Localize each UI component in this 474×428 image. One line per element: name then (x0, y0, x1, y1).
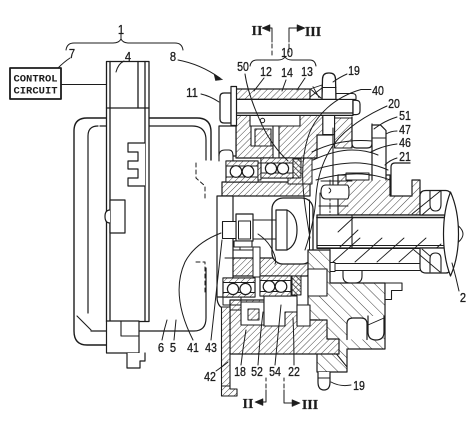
pulley tab column 47 (372, 125, 386, 180)
svg-text:CONTROL: CONTROL (13, 74, 57, 86)
svg-text:6: 6 (158, 340, 164, 355)
control box leader wire (61, 84, 107, 86)
bracket foot 19 (318, 372, 330, 390)
rotor shaft bolt head (276, 210, 297, 250)
leader 12 (254, 78, 264, 91)
upper left bearing outer (226, 161, 258, 182)
bracket right cutout (385, 283, 402, 300)
plate tabs (128, 143, 145, 186)
svg-text:40: 40 (372, 83, 384, 98)
upper left bearing ball 1 (230, 166, 242, 178)
svg-text:46: 46 (399, 135, 411, 150)
lower right bearing ball 2 (275, 281, 287, 293)
arrowhead III bottom (292, 400, 300, 407)
lower flange hatched (230, 300, 339, 354)
encoder block (223, 222, 237, 239)
svg-text:21: 21 (399, 149, 411, 164)
bolt washer (231, 87, 237, 126)
bracket upper cutout (308, 269, 327, 296)
leader 52 (258, 312, 263, 365)
rotor hub hatched band upper (222, 182, 310, 196)
curve zone sweep a (313, 150, 378, 160)
inner hatched key (255, 129, 271, 146)
rotor shaft lines (253, 220, 276, 239)
svg-text:III: III (302, 398, 318, 413)
lug diagonal (368, 318, 384, 325)
leader 7 (58, 58, 70, 68)
sensor strip 42 (222, 307, 231, 386)
plate step bar (336, 94, 356, 100)
clutch pin (321, 185, 349, 199)
svg-text:52: 52 (251, 364, 263, 379)
upper right bearing race bottom (261, 173, 293, 178)
detent ball (260, 118, 264, 122)
bolt shaft inner line (236, 112, 353, 114)
leader 19 bottom (331, 382, 351, 386)
collar diagonals (412, 191, 441, 216)
lower right bearing race bottom (260, 292, 291, 297)
svg-text:42: 42 (204, 369, 216, 384)
svg-text:2: 2 (460, 290, 466, 305)
pin notch (329, 188, 331, 193)
rotor web edge (332, 128, 334, 185)
flange slot right (273, 126, 279, 158)
upper right bearing race top (261, 158, 293, 163)
leader 5 (174, 320, 176, 340)
tick 1 (120, 34, 122, 39)
hub block inner edge (309, 200, 311, 262)
rotor rim hatch (335, 118, 352, 148)
output shaft 2 (317, 215, 451, 248)
center nut block 43 (236, 214, 253, 241)
bracket lug (368, 316, 384, 340)
leader 21 (385, 158, 397, 165)
lower left bearing outer (223, 278, 255, 297)
flange white cutout 54 (264, 296, 297, 326)
plate divider (107, 107, 150, 109)
bracket chamfer (330, 346, 347, 367)
shaft spline diagonals (333, 218, 441, 262)
flange white cutout 52 (241, 302, 264, 325)
svg-text:18: 18 (234, 364, 246, 379)
leader 46 (371, 144, 397, 152)
svg-text:41: 41 (187, 340, 199, 355)
step block below shaft (327, 263, 335, 272)
svg-text:22: 22 (288, 364, 300, 379)
leader 20 (305, 106, 387, 250)
plate right inner line (144, 62, 146, 322)
svg-text:19: 19 (353, 378, 365, 393)
housing inner shell 6 (88, 126, 206, 331)
upper flange white cutout (251, 126, 273, 146)
housing chamfer line (77, 316, 91, 330)
upper left wall (219, 126, 236, 156)
leader 43 (211, 240, 222, 340)
connector bump (105, 210, 110, 223)
leader 18 (241, 330, 246, 365)
arrowhead 8 (214, 74, 223, 80)
leader 42 (216, 362, 228, 371)
brace 1 (66, 39, 183, 50)
lower bearing right block (292, 276, 301, 295)
top plate hatched 12 14 13 (236, 89, 310, 99)
mid left wall (217, 196, 233, 297)
rotor hub hatched band lower (225, 258, 310, 276)
shaft end lens 2 (444, 192, 459, 276)
upper collar (420, 191, 455, 216)
lens tip (459, 226, 464, 242)
lower right bearing outer (260, 276, 291, 296)
leader 47 (386, 131, 397, 134)
section line II bottom (256, 390, 266, 402)
leader 51 (374, 117, 397, 129)
leader 50 (245, 74, 288, 161)
leader 6 (162, 320, 167, 340)
upper left bearing ball 2 (242, 166, 254, 178)
lower collar diagonals (414, 249, 440, 272)
foot inner line (322, 87, 336, 89)
nut inner (239, 221, 251, 239)
svg-text:19: 19 (348, 63, 360, 78)
lower left bearing ball 1 (227, 283, 238, 294)
collar notch (430, 191, 441, 211)
shaft inner top line (317, 217, 451, 219)
upper left bearing race top (226, 161, 258, 166)
upper flange hatched block (236, 115, 332, 159)
upper right bearing ball 2 (277, 163, 288, 174)
rotor hub mid hatch (288, 158, 312, 184)
curve zone sweep b (313, 163, 388, 170)
svg-text:8: 8 (170, 49, 176, 64)
upper flange white slot (250, 115, 300, 126)
arrowhead II top (262, 25, 270, 32)
pulley U channel 51 (352, 117, 372, 148)
spring wire curve (258, 234, 276, 264)
housing hidden edge dashes lower (196, 262, 205, 292)
flat bar above pin zone (346, 173, 369, 180)
stator plate 4 (107, 62, 150, 322)
shaft step line (351, 215, 353, 248)
svg-text:51: 51 (399, 108, 411, 123)
mount foot top 19 (322, 73, 336, 99)
pin base lines (319, 181, 352, 215)
plate bottom block (107, 321, 140, 353)
svg-text:4: 4 (125, 49, 131, 64)
nut step lines (225, 247, 253, 258)
lower right bearing ball 1 (263, 281, 275, 293)
svg-text:13: 13 (301, 64, 313, 79)
plate connector box (110, 200, 125, 233)
curve zone sweep a0 (312, 140, 372, 152)
right end plate white (323, 107, 335, 135)
center axis dash (329, 180, 331, 263)
tab base line (372, 137, 386, 139)
svg-text:10: 10 (281, 45, 293, 60)
strip foot (222, 386, 238, 396)
svg-text:III: III (305, 25, 321, 40)
upper right bearing outer (261, 158, 293, 178)
leader 54 (275, 305, 281, 365)
section line III bottom (284, 390, 299, 403)
retainer bump (343, 271, 362, 284)
bolt face line (286, 210, 288, 250)
svg-text:5: 5 (170, 340, 176, 355)
leader 22 (293, 318, 294, 365)
lower left steps under bearing (223, 297, 241, 310)
housing hidden edge dashes upper (196, 163, 205, 200)
svg-text:1: 1 (118, 22, 124, 37)
washer band (317, 249, 440, 263)
bottom bracket 19 hatched (308, 250, 385, 372)
svg-text:12: 12 (260, 64, 272, 79)
housing outer shell 5 (74, 118, 211, 345)
flange key hatch (248, 309, 259, 320)
flange white cutout 22 (297, 305, 310, 326)
leader 2 (452, 263, 459, 291)
foot line (318, 377, 330, 379)
lower collar notch (430, 253, 441, 272)
lower left bearing race bottom (223, 293, 255, 298)
plate bottom notch (121, 321, 139, 336)
upper left bearing race bottom (226, 177, 258, 182)
lower left bearing ball 2 (240, 283, 251, 294)
leader 14 (282, 80, 286, 91)
plate foot (127, 353, 145, 368)
brace 10 (250, 57, 316, 66)
upper bearing spacer (258, 163, 261, 180)
lower right bearing race top (260, 276, 291, 281)
through bolt shaft 50 (236, 99, 353, 115)
arrowhead II bottom (255, 399, 263, 406)
wall top step (219, 150, 233, 161)
nut flange (234, 241, 252, 247)
upper right bearing ball 1 (265, 163, 276, 174)
section line II top (263, 28, 272, 42)
leader 41 (179, 233, 221, 340)
shaft inner bottom line (317, 245, 451, 247)
svg-text:50: 50 (237, 59, 249, 74)
leader 4 (116, 61, 124, 72)
bolt head 11 (220, 93, 231, 123)
svg-text:II: II (252, 24, 263, 39)
retainer bar (335, 264, 428, 271)
center hub rounded block 40 (272, 198, 313, 264)
leader 11 (201, 94, 219, 102)
hub lower hatch right (338, 175, 420, 215)
retainer end tab (428, 258, 435, 271)
bracket step 21 outline (391, 163, 410, 196)
leader 40 (303, 90, 371, 239)
svg-text:43: 43 (205, 340, 217, 355)
lower left bearing race top (223, 278, 255, 283)
plate left inner line (109, 62, 111, 322)
section line III top (289, 28, 304, 42)
arrowhead III top (297, 25, 305, 32)
upper bearing right block (293, 159, 301, 178)
plate top inner vertical (137, 62, 139, 109)
foot gusset (310, 85, 322, 99)
lower collar (420, 248, 455, 273)
curve zone sweep c (316, 174, 390, 180)
leader 13 (297, 78, 305, 90)
svg-text:54: 54 (269, 364, 281, 379)
control circuit box (10, 68, 61, 99)
bracket slot (347, 318, 367, 340)
svg-text:7: 7 (69, 46, 75, 61)
wall corner (217, 297, 229, 310)
svg-text:11: 11 (186, 85, 198, 100)
svg-text:14: 14 (281, 65, 293, 80)
bolt end cap (353, 100, 360, 114)
svg-text:II: II (243, 397, 254, 412)
bearing sleeve (253, 247, 260, 277)
leader 8 (178, 60, 220, 78)
svg-text:CIRCUIT: CIRCUIT (13, 86, 57, 98)
leader 19 top (333, 74, 347, 82)
